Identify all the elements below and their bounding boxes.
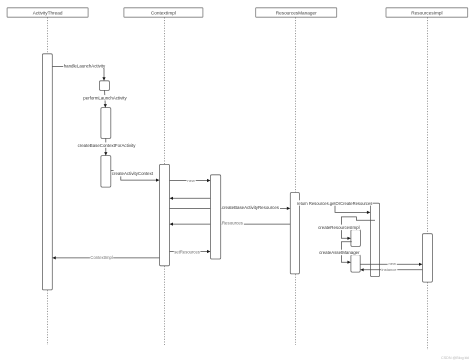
svg-text:createAssetManager: createAssetManager bbox=[319, 250, 360, 255]
label instance bbox=[381, 267, 397, 272]
activation box performLaunchActivity bbox=[101, 108, 111, 139]
label createResourcesImpl bbox=[318, 225, 360, 231]
header box ActivityThread bbox=[7, 8, 88, 17]
activation box createAssetManager bbox=[351, 255, 360, 272]
svg-text:CSDN @Blog kkl: CSDN @Blog kkl bbox=[441, 356, 469, 360]
label createActivityContext bbox=[112, 169, 156, 176]
activation box createBaseContextForActivity bbox=[101, 156, 111, 188]
lifeline ActivityThread (dashed) bbox=[46, 17, 48, 345]
activation bar ResourcesManager bbox=[290, 193, 299, 274]
message performLaunchActivity bbox=[104, 90, 107, 104]
activation box handleLaunchActivity bbox=[100, 81, 110, 91]
header box ResourcesImpl bbox=[386, 8, 468, 17]
lifeline ResourcesManager (dashed) bbox=[294, 17, 296, 345]
label return Resources.getOrCreateResources bbox=[296, 200, 372, 206]
message handleLaunchActivity bbox=[52, 67, 104, 78]
svg-text:handleLaunchActivity: handleLaunchActivity bbox=[64, 64, 106, 69]
svg-text:setResources: setResources bbox=[174, 249, 200, 254]
lifeline ResourcesImpl (dashed) bbox=[427, 17, 429, 350]
svg-text:new: new bbox=[187, 178, 194, 183]
message createResourcesImpl (routed connector) bbox=[341, 217, 375, 238]
label setResources bbox=[174, 249, 201, 255]
activation bar anonymous object (covers crossing lines) bbox=[211, 175, 221, 259]
activation bar getOrCreateResources bbox=[370, 203, 379, 276]
label ContextImpl return bbox=[90, 254, 113, 260]
message self-call getOrCreateResources (segment under label) bbox=[299, 204, 335, 206]
message ContextImpl return to ActivityThread bbox=[56, 257, 160, 259]
label performLaunchActivity bbox=[83, 95, 128, 101]
svg-text:instance: instance bbox=[382, 267, 398, 272]
message instance return (from ResourcesImpl) bbox=[364, 269, 423, 271]
message self-call getOrCreateResources (jog and arrow) bbox=[335, 206, 367, 213]
activation bar ResourcesImpl bbox=[423, 234, 433, 282]
svg-text:new: new bbox=[389, 261, 396, 266]
label new (ResourcesImpl) bbox=[388, 261, 397, 266]
message createBaseActivityResources (passes under anonymous bar) bbox=[170, 207, 287, 209]
label createBaseActivityResources bbox=[221, 205, 280, 211]
svg-text:createActivityContext: createActivityContext bbox=[112, 171, 154, 176]
label createBaseContextForActivity bbox=[77, 142, 136, 148]
header box ContextImpl bbox=[124, 8, 203, 17]
svg-text:ResourcesImpl: ResourcesImpl bbox=[411, 10, 442, 15]
activation bar ContextImpl bbox=[160, 164, 170, 265]
label createAssetManager bbox=[319, 250, 361, 256]
activation bar ActivityThread (main) bbox=[42, 54, 52, 290]
message new (to ResourcesImpl) bbox=[360, 263, 419, 265]
svg-text:return Resources.getOrCreateRe: return Resources.getOrCreateResources bbox=[297, 201, 372, 206]
svg-text:ContextImpl: ContextImpl bbox=[151, 10, 176, 15]
message new (ContextImpl to anonymous object) bbox=[170, 180, 208, 182]
label new (ContextImpl) bbox=[187, 178, 196, 183]
message Resources return (passes under anonymous bar) bbox=[173, 223, 290, 225]
svg-text:createBaseActivityResources: createBaseActivityResources bbox=[222, 205, 280, 210]
svg-text:performLaunchActivity: performLaunchActivity bbox=[83, 96, 127, 101]
message createActivityContext bbox=[111, 170, 156, 180]
svg-text:createBaseContextForActivity: createBaseContextForActivity bbox=[78, 143, 137, 148]
svg-text:createResourcesImpl: createResourcesImpl bbox=[318, 225, 360, 230]
watermark CSDN bbox=[441, 356, 469, 360]
message return from anonymous object bbox=[173, 197, 211, 199]
message createAssetManager (routed connector) bbox=[341, 242, 351, 262]
lifeline ContextImpl (dashed) bbox=[163, 17, 165, 345]
label Resources bbox=[221, 220, 244, 226]
svg-text:ActivityThread: ActivityThread bbox=[33, 10, 63, 15]
header box ResourcesManager bbox=[256, 8, 337, 17]
svg-text:ContextImpl: ContextImpl bbox=[90, 255, 112, 260]
label handleLaunchActivity bbox=[63, 63, 106, 69]
activation box createResourcesImpl bbox=[351, 230, 361, 247]
message createBaseContextForActivity bbox=[105, 138, 107, 152]
svg-text:Resources: Resources bbox=[222, 220, 244, 225]
message setResources bbox=[170, 251, 208, 253]
svg-text:ResourcesManager: ResourcesManager bbox=[276, 10, 317, 15]
